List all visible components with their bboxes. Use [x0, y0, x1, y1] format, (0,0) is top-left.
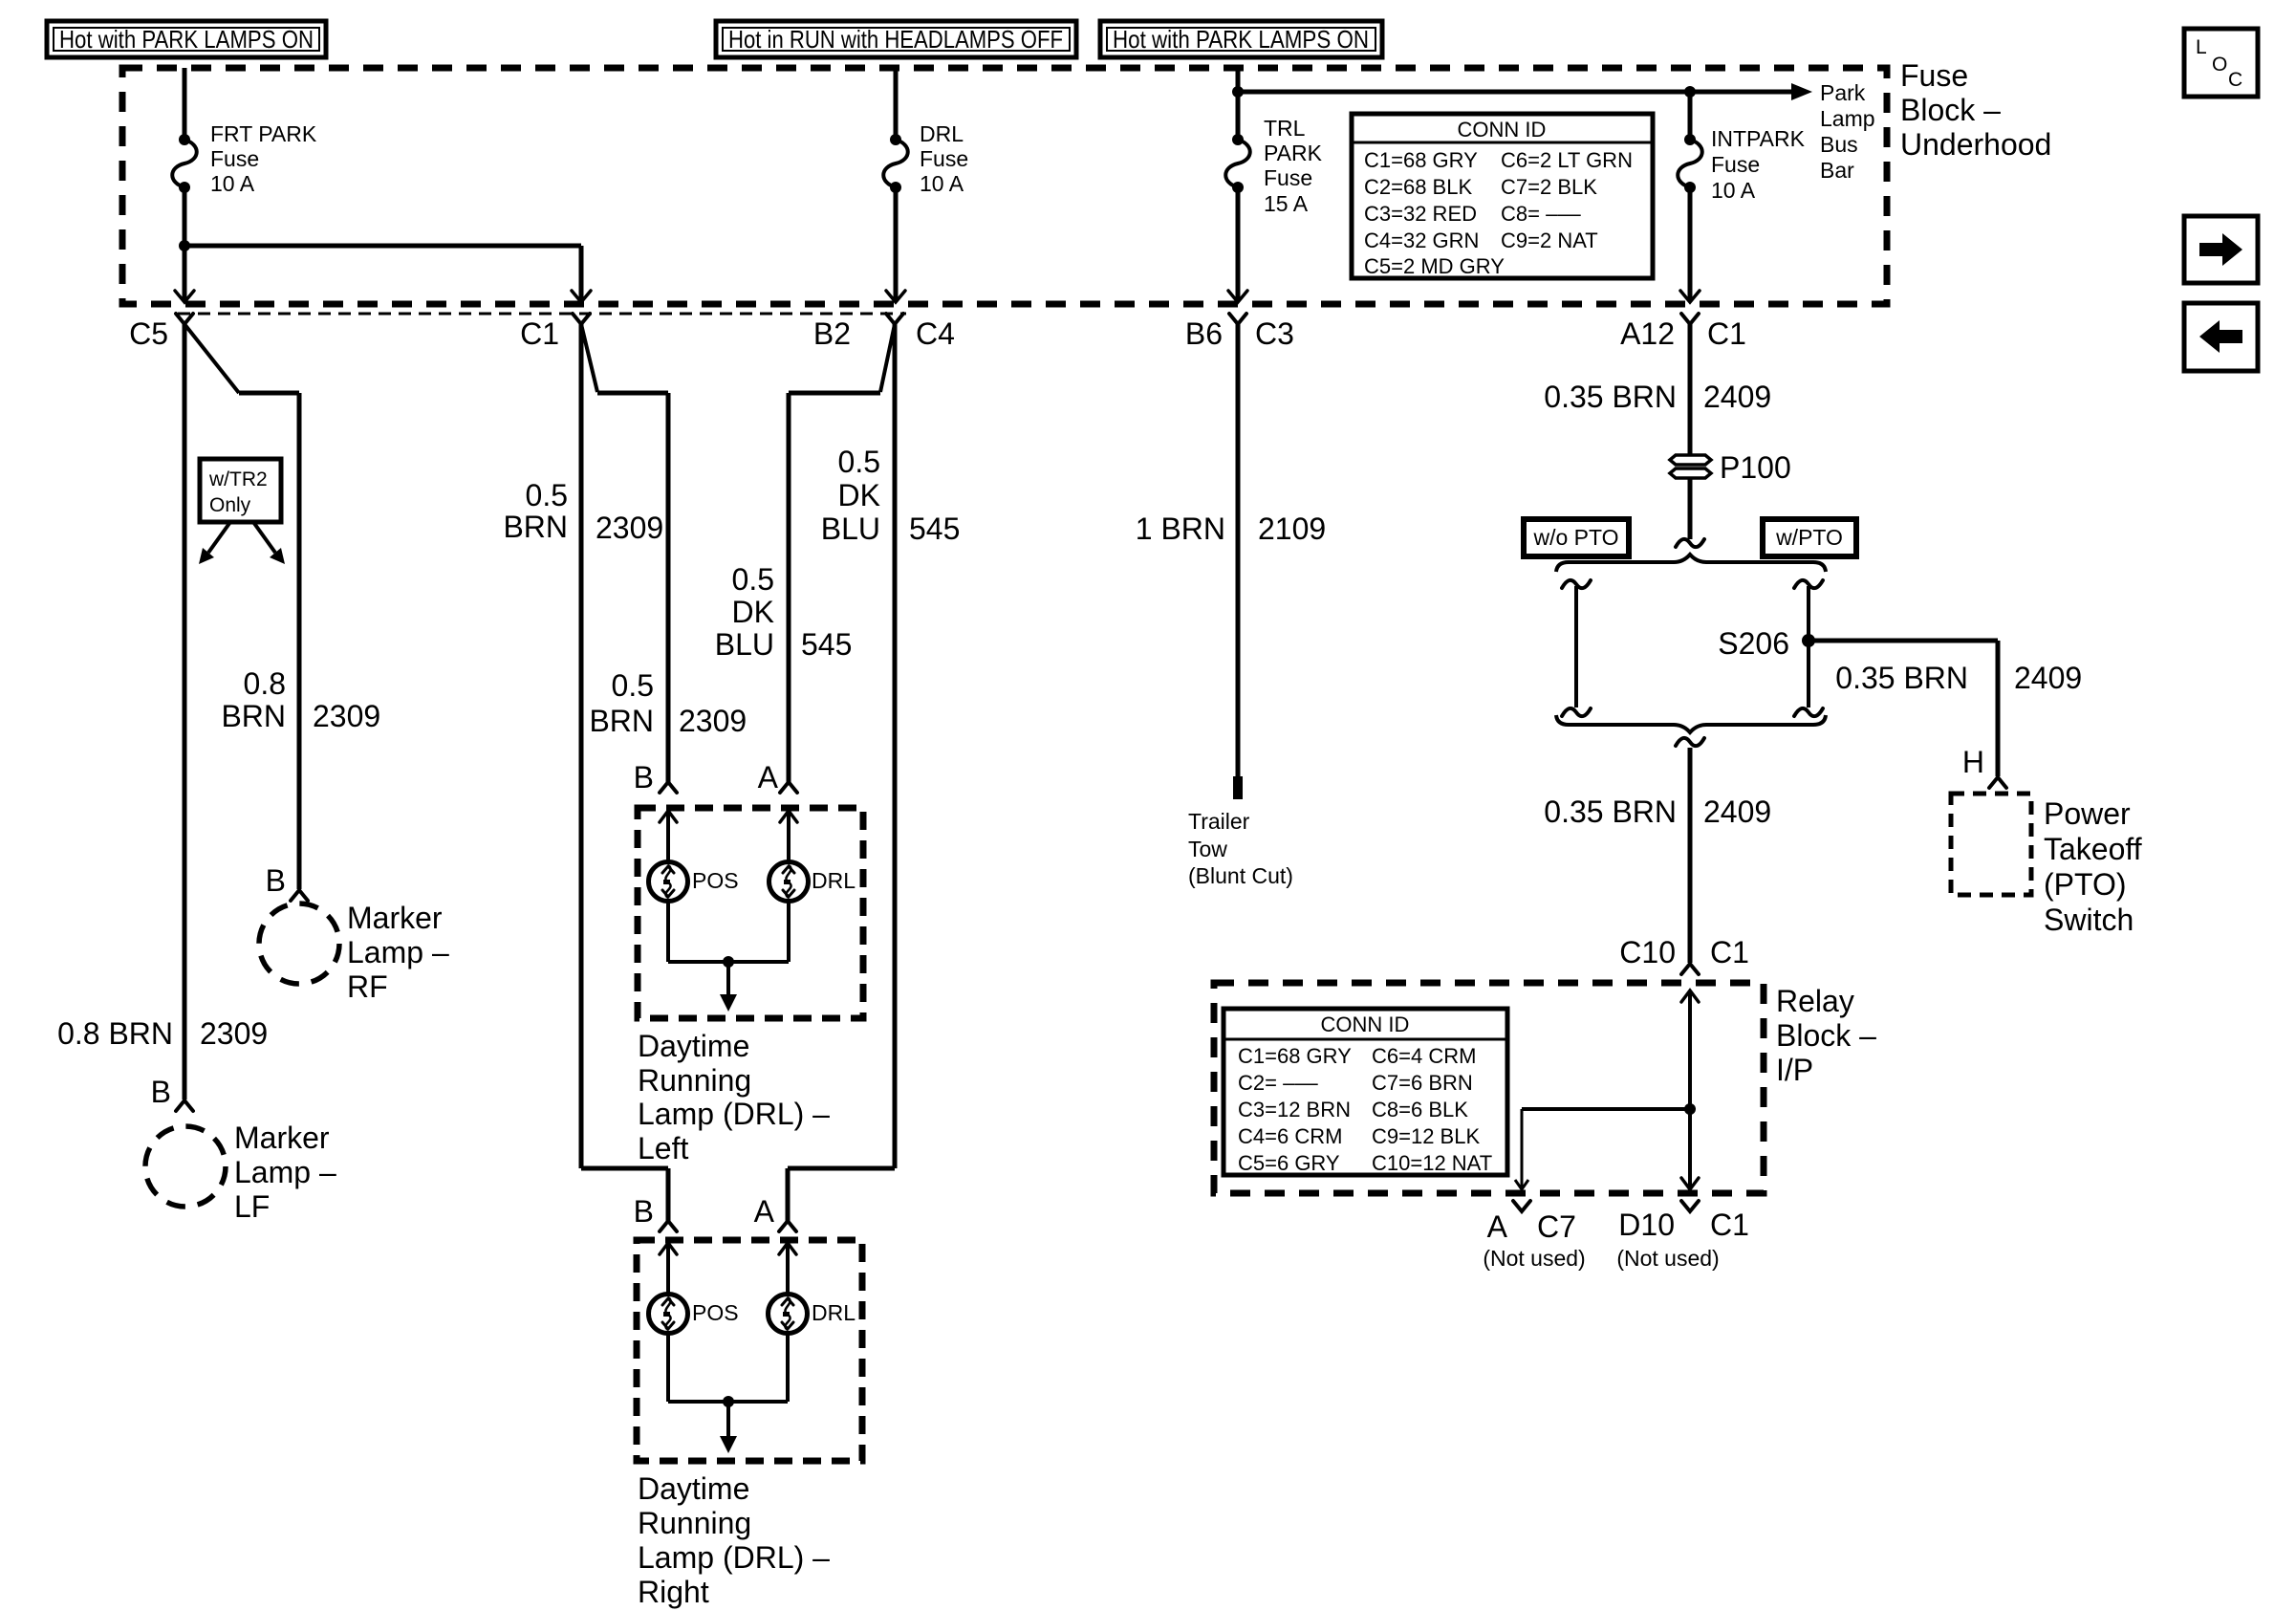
- svg-text:C9=2 NAT: C9=2 NAT: [1501, 229, 1598, 252]
- power label box: Hot in RUN with HEADLAMPS OFF: [716, 21, 1076, 57]
- wire: DRL fuse output to connector B2/C4: [894, 187, 899, 300]
- svg-text:PARK: PARK: [1264, 141, 1323, 165]
- svg-text:C1: C1: [520, 316, 559, 351]
- wire label 0.8 BRN 2309 (LF wire): [57, 1016, 268, 1051]
- svg-text:B: B: [634, 760, 654, 795]
- Relay Block - I/P label: [1776, 984, 1876, 1087]
- svg-text:Daytime: Daytime: [638, 1471, 749, 1506]
- Trailer Tow (Blunt Cut) label: [1188, 809, 1293, 888]
- wire label 0.5 BRN 2309 (DRL Left B branch): [589, 668, 747, 738]
- svg-text:C8=6 BLK: C8=6 BLK: [1372, 1098, 1468, 1121]
- svg-text:Fuse: Fuse: [920, 146, 968, 171]
- svg-text:15 A: 15 A: [1264, 191, 1309, 216]
- wire: park lamp bus bar feed: [1238, 83, 1812, 100]
- svg-text:Park: Park: [1820, 80, 1866, 105]
- svg-text:545: 545: [801, 627, 852, 662]
- svg-text:C1=68 GRY: C1=68 GRY: [1364, 148, 1478, 172]
- svg-text:Underhood: Underhood: [1900, 127, 2051, 162]
- svg-text:Lamp –: Lamp –: [234, 1155, 336, 1189]
- arrow into DRL Right pin B: [660, 1243, 677, 1295]
- svg-text:2309: 2309: [596, 511, 663, 545]
- svg-text:0.5: 0.5: [732, 562, 774, 597]
- svg-text:INTPARK: INTPARK: [1711, 126, 1806, 151]
- connector D10/C1 exit (not used): [1616, 1201, 1749, 1271]
- wire: FRT PARK fuse output down to connector C5: [179, 187, 190, 300]
- w/PTO option box: [1763, 519, 1856, 556]
- svg-text:Only: Only: [209, 494, 251, 516]
- svg-text:10 A: 10 A: [1711, 178, 1756, 203]
- svg-text:BRN: BRN: [221, 699, 286, 733]
- ground join inside DRL Right: [668, 1334, 788, 1453]
- svg-text:w/o PTO: w/o PTO: [1532, 525, 1618, 550]
- fuse FRT PARK 10A: [172, 121, 317, 196]
- svg-text:0.5: 0.5: [612, 668, 654, 703]
- wire: C1 branch to DRL Left pin B: [581, 324, 668, 782]
- fuse DRL 10A: [883, 121, 968, 196]
- svg-text:(Not used): (Not used): [1616, 1246, 1719, 1271]
- svg-text:2309: 2309: [313, 699, 380, 733]
- wire label 0.35 BRN 2409 (upper): [1544, 380, 1771, 414]
- legend arrow box (right arrow): [2184, 216, 2258, 283]
- option break tilde (top): [1676, 539, 1704, 547]
- svg-text:RF: RF: [347, 969, 388, 1004]
- wire: feed from Hot with PARK LAMPS ON to FRT PARK fuse: [183, 68, 187, 140]
- option break tilde (bottom): [1676, 738, 1704, 746]
- svg-text:C5: C5: [129, 316, 168, 351]
- w/TR2 Only option box: [200, 459, 281, 522]
- svg-text:LF: LF: [234, 1189, 270, 1224]
- svg-text:w/TR2: w/TR2: [208, 468, 268, 490]
- svg-text:Daytime: Daytime: [638, 1029, 749, 1063]
- svg-text:C10: C10: [1619, 935, 1676, 969]
- svg-text:TRL: TRL: [1264, 116, 1306, 141]
- wire: C1 main down (0.5 BRN 2309): [579, 324, 584, 1168]
- svg-text:2109: 2109: [1258, 512, 1326, 546]
- connector A12/C1 (fuse block): [1620, 314, 1746, 351]
- wire: A12/C1 down to P100 (0.35 BRN 2409): [1688, 324, 1693, 455]
- Daytime Running Lamp DRL Left (dashed box): [638, 808, 863, 1018]
- svg-text:DRL: DRL: [920, 121, 964, 146]
- svg-text:DK: DK: [732, 595, 774, 629]
- svg-text:A: A: [1487, 1209, 1508, 1244]
- wire jog: C1 main over to DRL Right pin B: [581, 1168, 668, 1221]
- svg-text:Bar: Bar: [1820, 158, 1854, 183]
- svg-text:A12: A12: [1620, 316, 1675, 351]
- svg-text:C1: C1: [1710, 935, 1749, 969]
- svg-text:BLU: BLU: [821, 512, 880, 546]
- svg-text:Bus: Bus: [1820, 132, 1858, 157]
- svg-text:w/PTO: w/PTO: [1775, 525, 1843, 550]
- legend arrow box (left arrow): [2184, 303, 2258, 371]
- CONN ID table (fuse block): [1352, 114, 1653, 278]
- svg-text:Hot with PARK LAMPS ON: Hot with PARK LAMPS ON: [1113, 25, 1369, 54]
- svg-text:0.35 BRN: 0.35 BRN: [1544, 795, 1677, 829]
- svg-text:C4: C4: [916, 316, 955, 351]
- grommet P100: [1670, 450, 1791, 485]
- svg-text:2409: 2409: [1703, 795, 1771, 829]
- fuse TRL PARK 15A: [1225, 116, 1322, 216]
- svg-text:10 A: 10 A: [210, 171, 255, 196]
- Marker Lamp LF (dashed lamp circle): [145, 1126, 226, 1207]
- w/o PTO option leg: [1562, 580, 1591, 716]
- arrow into DRL Right pin A: [779, 1243, 796, 1295]
- option brace (opening): [1556, 555, 1826, 572]
- svg-text:Running: Running: [638, 1063, 751, 1098]
- svg-text:Tow: Tow: [1188, 837, 1227, 861]
- svg-text:0.35 BRN: 0.35 BRN: [1544, 380, 1677, 414]
- svg-text:C7=6 BRN: C7=6 BRN: [1372, 1071, 1473, 1095]
- CONN ID table (relay block): [1224, 1009, 1507, 1175]
- svg-text:Lamp –: Lamp –: [347, 935, 449, 969]
- svg-text:C2= –––: C2= –––: [1238, 1071, 1319, 1095]
- connector B2/C4 (fuse block): [813, 314, 955, 351]
- LOC legend box: [2184, 29, 2258, 97]
- svg-text:C1: C1: [1707, 316, 1746, 351]
- svg-text:Marker: Marker: [234, 1121, 330, 1155]
- arrow into fuse block edge at C1: [572, 291, 591, 302]
- svg-text:2309: 2309: [200, 1016, 268, 1051]
- wire: C5 branch to Marker Lamp RF: [184, 324, 299, 889]
- svg-text:Right: Right: [638, 1575, 709, 1609]
- svg-text:BRN: BRN: [503, 510, 568, 544]
- svg-text:C9=12 BLK: C9=12 BLK: [1372, 1124, 1480, 1148]
- power label box: Hot with PARK LAMPS ON (right): [1100, 21, 1382, 57]
- pin B of DRL Right: [634, 1194, 677, 1231]
- Daytime Running Lamp DRL Right (dashed box): [637, 1240, 862, 1461]
- svg-text:C4=32 GRN: C4=32 GRN: [1364, 229, 1479, 252]
- svg-text:A: A: [754, 1194, 775, 1229]
- relay block internal wire C10 to D10: [1681, 991, 1699, 1189]
- arrow into fuse block edge at A12/C1: [1680, 291, 1700, 302]
- svg-text:D10: D10: [1618, 1208, 1675, 1242]
- wire: feed from Hot with PARK LAMPS ON to TRL PARK fuse: [1232, 68, 1244, 140]
- Marker Lamp LF label: [234, 1121, 336, 1224]
- svg-text:S206: S206: [1718, 626, 1789, 661]
- svg-text:BLU: BLU: [715, 627, 774, 662]
- svg-text:Fuse: Fuse: [1711, 152, 1760, 177]
- svg-text:10 A: 10 A: [920, 171, 964, 196]
- wire label 0.35 BRN 2409 (PTO branch): [1835, 661, 2082, 695]
- svg-text:POS: POS: [692, 868, 739, 893]
- power label box: Hot with PARK LAMPS ON (left): [47, 21, 326, 57]
- Relay Block - I/P (dashed box): [1214, 983, 1764, 1193]
- Power Takeoff (PTO) Switch label: [2044, 796, 2142, 937]
- svg-text:I/P: I/P: [1776, 1053, 1813, 1087]
- svg-text:Fuse: Fuse: [1264, 165, 1312, 190]
- svg-text:B6: B6: [1185, 316, 1223, 351]
- svg-text:Running: Running: [638, 1506, 751, 1540]
- svg-text:Power: Power: [2044, 796, 2131, 831]
- svg-text:(PTO): (PTO): [2044, 867, 2127, 902]
- w/TR2 arrow to right wire: [253, 522, 285, 564]
- svg-text:Block –: Block –: [1900, 93, 2001, 127]
- svg-text:0.8 BRN: 0.8 BRN: [57, 1016, 173, 1051]
- svg-text:CONN ID: CONN ID: [1321, 1012, 1410, 1036]
- pin A of DRL Left: [758, 760, 797, 795]
- svg-text:Left: Left: [638, 1131, 688, 1165]
- bulb POS (DRL Left): [649, 862, 739, 902]
- svg-text:C3=12 BRN: C3=12 BRN: [1238, 1098, 1351, 1121]
- svg-text:(Not used): (Not used): [1483, 1246, 1585, 1271]
- bulb DRL (DRL Left): [769, 862, 856, 902]
- wire: TRL PARK fuse output to connector B6/C3: [1236, 187, 1241, 300]
- wire label 0.8 BRN 2309 (RF branch): [221, 666, 380, 733]
- svg-text:C4=6 CRM: C4=6 CRM: [1238, 1124, 1342, 1148]
- Marker Lamp RF label: [347, 901, 449, 1004]
- pin H of PTO switch: [1962, 745, 2006, 788]
- wire: feed from Hot in RUN with HEADLAMPS OFF to DRL fuse: [894, 68, 899, 140]
- wire: C4 branch to DRL Left pin A: [789, 324, 895, 782]
- svg-text:P100: P100: [1720, 450, 1791, 485]
- w/TR2 arrow to left wire: [199, 522, 230, 564]
- svg-text:C3=32 RED: C3=32 RED: [1364, 202, 1477, 226]
- connector boundary thin dashed line: [178, 313, 906, 316]
- relay block internal branch to A/C7: [1515, 1109, 1690, 1189]
- svg-text:C8= –––: C8= –––: [1501, 202, 1582, 226]
- svg-text:(Blunt Cut): (Blunt Cut): [1188, 863, 1293, 888]
- w/PTO option leg: [1794, 580, 1823, 716]
- svg-text:C10=12 NAT: C10=12 NAT: [1372, 1151, 1492, 1175]
- pin A of DRL Right: [754, 1194, 796, 1231]
- svg-text:545: 545: [909, 512, 960, 546]
- wire: P100 down to option split: [1688, 478, 1693, 539]
- svg-text:0.5: 0.5: [526, 478, 568, 512]
- svg-text:Lamp (DRL) –: Lamp (DRL) –: [638, 1097, 830, 1131]
- svg-text:Switch: Switch: [2044, 903, 2134, 937]
- svg-text:B: B: [266, 863, 286, 898]
- svg-text:Lamp: Lamp: [1820, 106, 1875, 131]
- svg-text:CONN ID: CONN ID: [1458, 118, 1547, 142]
- splice S206: [1718, 626, 1815, 661]
- blunt cut terminal: [1233, 776, 1243, 799]
- svg-text:B2: B2: [813, 316, 851, 351]
- svg-text:A: A: [758, 760, 779, 795]
- svg-text:C5=2 MD GRY: C5=2 MD GRY: [1364, 254, 1505, 278]
- svg-text:POS: POS: [692, 1300, 739, 1325]
- wire: option join down to relay block C10/C1 (0.35 BRN 2409): [1688, 748, 1693, 963]
- svg-text:C1: C1: [1710, 1208, 1749, 1242]
- svg-text:Block –: Block –: [1776, 1018, 1876, 1053]
- wire: C4 main down (0.5 DK BLU 545): [893, 324, 898, 1168]
- svg-text:Trailer: Trailer: [1188, 809, 1250, 834]
- svg-text:1 BRN: 1 BRN: [1136, 512, 1225, 546]
- svg-text:C2=68 BLK: C2=68 BLK: [1364, 175, 1472, 199]
- connector A/C7 exit (not used): [1483, 1201, 1585, 1271]
- svg-text:Relay: Relay: [1776, 984, 1854, 1018]
- svg-text:C3: C3: [1255, 316, 1294, 351]
- svg-text:B: B: [151, 1075, 171, 1109]
- wire label 0.35 BRN 2409 (lower): [1544, 795, 1771, 829]
- wire label 1 BRN 2109: [1136, 512, 1326, 546]
- Power Takeoff PTO Switch (dashed box): [1951, 794, 2031, 895]
- svg-text:Fuse: Fuse: [210, 146, 259, 171]
- ground join inside DRL Left: [668, 902, 789, 1012]
- svg-text:H: H: [1962, 745, 1984, 779]
- svg-text:0.5: 0.5: [838, 445, 880, 479]
- wire: INTPARK fuse output to connector A12/C1: [1688, 187, 1693, 300]
- svg-text:Lamp (DRL) –: Lamp (DRL) –: [638, 1540, 830, 1575]
- svg-text:C7=2 BLK: C7=2 BLK: [1501, 175, 1597, 199]
- connector C5 (fuse block): [129, 314, 193, 351]
- connector C10/C1 (relay block): [1619, 935, 1749, 974]
- svg-text:Marker: Marker: [347, 901, 443, 935]
- svg-text:C: C: [2228, 69, 2242, 91]
- arrow into DRL Left pin A: [780, 811, 797, 862]
- svg-text:L: L: [2196, 36, 2207, 58]
- svg-text:Hot in RUN with HEADLAMPS OFF: Hot in RUN with HEADLAMPS OFF: [728, 25, 1063, 54]
- wire: branch from FRT PARK fuse output over to connector C1: [184, 246, 581, 300]
- svg-text:C5=6 GRY: C5=6 GRY: [1238, 1151, 1340, 1175]
- w/o PTO option box: [1524, 519, 1629, 556]
- bulb POS (DRL Right): [649, 1295, 739, 1334]
- svg-text:0.8: 0.8: [244, 666, 286, 701]
- svg-text:2309: 2309: [679, 704, 747, 738]
- Marker Lamp RF (dashed lamp circle): [259, 903, 339, 984]
- svg-text:C7: C7: [1537, 1209, 1576, 1244]
- Park Lamp Bus Bar label: [1820, 80, 1875, 183]
- svg-text:DK: DK: [838, 478, 880, 512]
- wire label 0.5 DK BLU 545 (DRL Left A branch): [715, 562, 853, 662]
- svg-text:C6=2 LT GRN: C6=2 LT GRN: [1501, 148, 1633, 172]
- svg-text:Takeoff: Takeoff: [2044, 832, 2142, 866]
- Daytime Running Lamp (DRL) - Left label: [638, 1029, 830, 1165]
- wire: S206 to PTO switch (0.35 BRN 2409): [1809, 641, 1998, 776]
- wire: C5 to Marker Lamp LF (0.8 BRN 2309): [183, 324, 187, 1099]
- option brace (closing): [1556, 715, 1826, 732]
- svg-text:BRN: BRN: [589, 704, 654, 738]
- svg-text:Fuse: Fuse: [1900, 58, 1968, 93]
- svg-text:0.35 BRN: 0.35 BRN: [1835, 661, 1968, 695]
- arrow into fuse block edge at B6/C3: [1228, 291, 1247, 302]
- wire label 0.5 DK BLU 545 (C4 main): [821, 445, 961, 546]
- svg-text:B: B: [634, 1194, 654, 1229]
- svg-text:Hot with PARK LAMPS ON: Hot with PARK LAMPS ON: [59, 25, 314, 54]
- svg-text:2409: 2409: [2014, 661, 2082, 695]
- svg-text:FRT PARK: FRT PARK: [210, 121, 317, 146]
- svg-text:C6=4 CRM: C6=4 CRM: [1372, 1044, 1476, 1068]
- arrow into fuse block edge at C5: [175, 291, 194, 302]
- bulb DRL (DRL Right): [769, 1295, 856, 1334]
- connector B6/C3 (fuse block): [1185, 314, 1294, 351]
- wire label 0.5 BRN 2309 (C1 main): [503, 478, 663, 545]
- pin B of Marker Lamp LF: [151, 1075, 193, 1111]
- arrow into fuse block edge at B2/C4: [886, 291, 905, 302]
- fuse INTPARK 10A: [1678, 92, 1805, 203]
- pin B of Marker Lamp RF: [266, 863, 308, 901]
- svg-text:C1=68 GRY: C1=68 GRY: [1238, 1044, 1352, 1068]
- connector C1 (fuse block left): [520, 314, 590, 351]
- svg-text:DRL: DRL: [812, 868, 856, 893]
- wire jog: C4 main over to DRL Right pin A: [788, 1168, 895, 1221]
- svg-text:2409: 2409: [1703, 380, 1771, 414]
- svg-text:DRL: DRL: [812, 1300, 856, 1325]
- svg-text:O: O: [2212, 54, 2227, 76]
- Fuse Block - Underhood dashed outline: [122, 68, 1887, 304]
- wire: B6/C3 to trailer tow (1 BRN 2109): [1236, 324, 1241, 778]
- arrow into DRL Left pin B: [660, 811, 677, 862]
- Fuse Block - Underhood label: [1900, 58, 2051, 162]
- pin B of DRL Left: [634, 760, 677, 795]
- Daytime Running Lamp (DRL) - Right label: [638, 1471, 830, 1609]
